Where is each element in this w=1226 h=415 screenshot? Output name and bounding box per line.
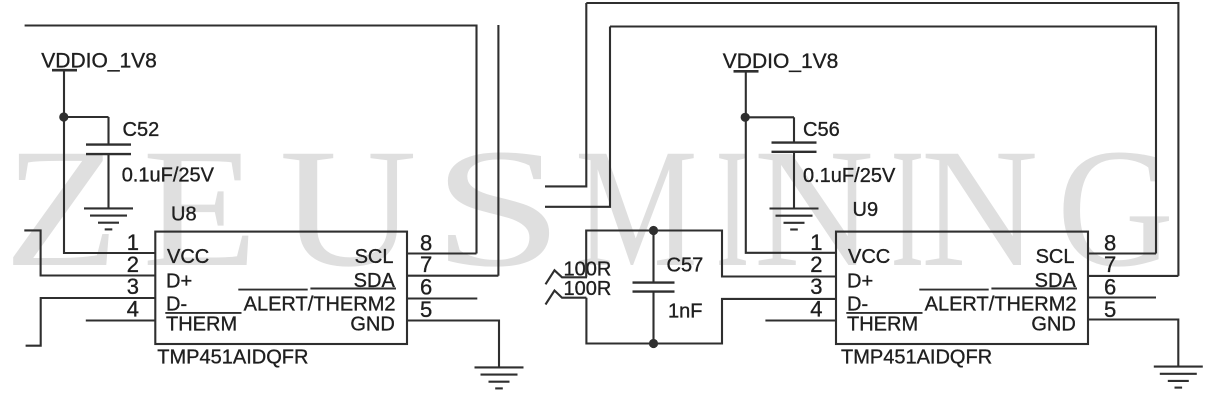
wire U8 pin6 stub [407,297,477,299]
pin name ALERT/THERM2 (U9) [919,289,1077,316]
pin name THERM (U8) [165,313,241,336]
wire U9 pin6 stub [1088,296,1156,298]
svg-text:ALERT/THERM2: ALERT/THERM2 [925,293,1077,315]
svg-text:7: 7 [420,252,432,277]
junction C57 bottom [649,339,658,348]
capacitor C52 [86,117,131,208]
svg-text:TMP451AIDQFR: TMP451AIDQFR [841,347,992,369]
svg-text:I: I [891,115,925,303]
resistor R? 100R (lower) [546,291,587,305]
wire U9 pin4 stub [765,319,836,321]
wire filter bottom rail [586,298,836,344]
wire U8 pin8 to rail [407,252,477,254]
wire SDA stub to middle (W1) [545,3,586,186]
junction VDDIO/C52 (left) [59,112,68,121]
svg-text:VDDIO_1V8: VDDIO_1V8 [723,50,839,73]
power flag VDDIO_1V8 (right) [734,70,759,73]
svg-text:5: 5 [420,297,432,322]
wire SDA net vertical stub (U8 pin7) [497,25,499,276]
wire U8 pin5 to ground [407,321,499,368]
svg-text:0.1uF/25V: 0.1uF/25V [122,165,215,187]
wire U8 pin3 net [26,298,156,346]
svg-text:VCC: VCC [848,246,890,268]
wire SCL stub to middle (W2) [545,27,610,207]
svg-text:ALERT/THERM2: ALERT/THERM2 [244,293,396,315]
IC U8 box [155,232,407,344]
wire outer top rail (U9 SDA) [586,3,1178,276]
wire SCL net top rail (U8) [25,26,477,254]
svg-text:THERM: THERM [166,313,237,335]
svg-text:C56: C56 [803,119,840,141]
svg-text:7: 7 [1104,252,1116,277]
wire filter top rail [586,231,836,278]
junction C57 top [649,226,658,235]
svg-text:U9: U9 [853,199,879,221]
ground (C52) [84,208,133,229]
svg-text:D+: D+ [847,270,873,292]
svg-text:SCL: SCL [1036,246,1075,268]
svg-text:C57: C57 [667,255,704,277]
svg-text:U: U [279,114,417,302]
svg-text:VCC: VCC [167,246,209,268]
svg-text:GND: GND [350,313,394,335]
wire inner top rail (U9 SCL) [610,27,1156,254]
capacitor C56 [772,117,817,208]
wire U9 pin8 to inner rail [1088,252,1156,254]
svg-text:VDDIO_1V8: VDDIO_1V8 [41,50,157,73]
svg-text:4: 4 [127,297,139,322]
svg-text:5: 5 [1104,297,1116,322]
resistor R? 100R (upper) [546,270,588,284]
wire VDDIO_1V8 vertical to U9 pin1 [746,71,836,253]
IC U9 box [836,232,1088,344]
svg-text:D+: D+ [166,270,192,292]
ground (C56) [770,209,819,230]
wire U8 pin2 net [24,230,155,275]
svg-text:1nF: 1nF [668,301,702,323]
svg-text:THERM: THERM [847,313,918,335]
power flag VDDIO_1V8 (left) [52,69,77,72]
wire VDDIO_1V8 vertical to U8 pin1 [64,70,155,253]
svg-text:6: 6 [420,275,432,300]
svg-text:4: 4 [810,297,822,322]
svg-text:6: 6 [1104,275,1116,300]
svg-text:I: I [716,115,750,303]
svg-text:TMP451AIDQFR: TMP451AIDQFR [157,347,308,369]
wire U8 pin7 to stub [407,275,498,277]
ground (U9 GND) [1154,367,1203,388]
svg-text:0.1uF/25V: 0.1uF/25V [803,165,896,187]
capacitor C57 [633,231,675,344]
wire junction to C56 [745,116,794,118]
wire U8 pin4 stub [86,319,156,321]
svg-text:SCL: SCL [355,246,394,268]
svg-text:N: N [921,114,1038,302]
svg-text:C52: C52 [123,119,160,141]
pin name ALERT/THERM2 (U8) [238,289,396,316]
svg-text:E: E [142,114,257,302]
svg-text:U8: U8 [171,204,197,226]
wire U9 pin5 to ground [1088,320,1178,367]
ground (U8 GND) [475,367,524,388]
wire U9 pin7 to outer rail [1088,275,1178,277]
wire junction to C52 [64,116,109,118]
svg-text:3: 3 [810,274,822,299]
svg-text:3: 3 [127,274,139,299]
junction VDDIO/C56 (right) [741,113,750,122]
svg-text:100R: 100R [564,278,612,300]
svg-text:GND: GND [1031,313,1075,335]
pin name THERM (U9) [846,313,922,336]
